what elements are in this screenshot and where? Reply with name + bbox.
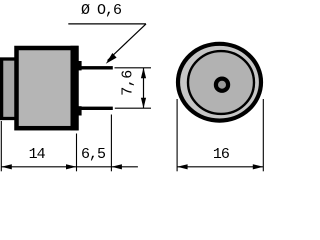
arrow 16 left [177, 164, 188, 169]
svg-text:16: 16 [213, 146, 230, 163]
lead pin lower [78, 107, 113, 110]
dim 7,6 arrow up [141, 68, 146, 79]
ext line left of 14 [0, 121, 2, 171]
arrow 14 left [1, 164, 12, 169]
buzzer side view: main body [17, 48, 77, 128]
buzzer side view: right end wall [71, 46, 79, 131]
terminal tab upper [74, 61, 82, 70]
bottom dimension line left [1, 166, 138, 168]
svg-text:14: 14 [29, 146, 46, 163]
svg-text:Ø O,6: Ø O,6 [81, 2, 122, 19]
arrow 16 right [253, 164, 263, 169]
svg-text:7,6: 7,6 [120, 70, 137, 96]
dim 7,6 extension line upper [115, 67, 152, 69]
ext line right of 16 [262, 99, 264, 171]
svg-text:6,5: 6,5 [81, 146, 106, 163]
dim 7,6 dimension line [143, 68, 145, 108]
buzzer side view: rear step block [2, 59, 18, 119]
arrow 14 right [66, 164, 77, 169]
front view inner face ellipse [188, 51, 254, 114]
leader diagonal line [108, 24, 147, 61]
front view outer case ellipse [178, 44, 261, 121]
lead pin upper [78, 66, 113, 69]
leader horizontal line [68, 23, 146, 25]
ext line left of 16 [176, 99, 178, 171]
dim 7,6 extension line lower [115, 107, 151, 109]
ext line right of 6,5 [110, 115, 112, 172]
bottom dimension line right [177, 166, 263, 168]
arrow 6,5 outside [111, 164, 122, 169]
front view center hole ring [216, 79, 228, 91]
dim 7,6 arrow down [141, 98, 146, 109]
leader arrowhead [106, 53, 117, 64]
terminal tab lower [74, 106, 82, 115]
ext line between 14 and 6,5 [76, 134, 78, 172]
